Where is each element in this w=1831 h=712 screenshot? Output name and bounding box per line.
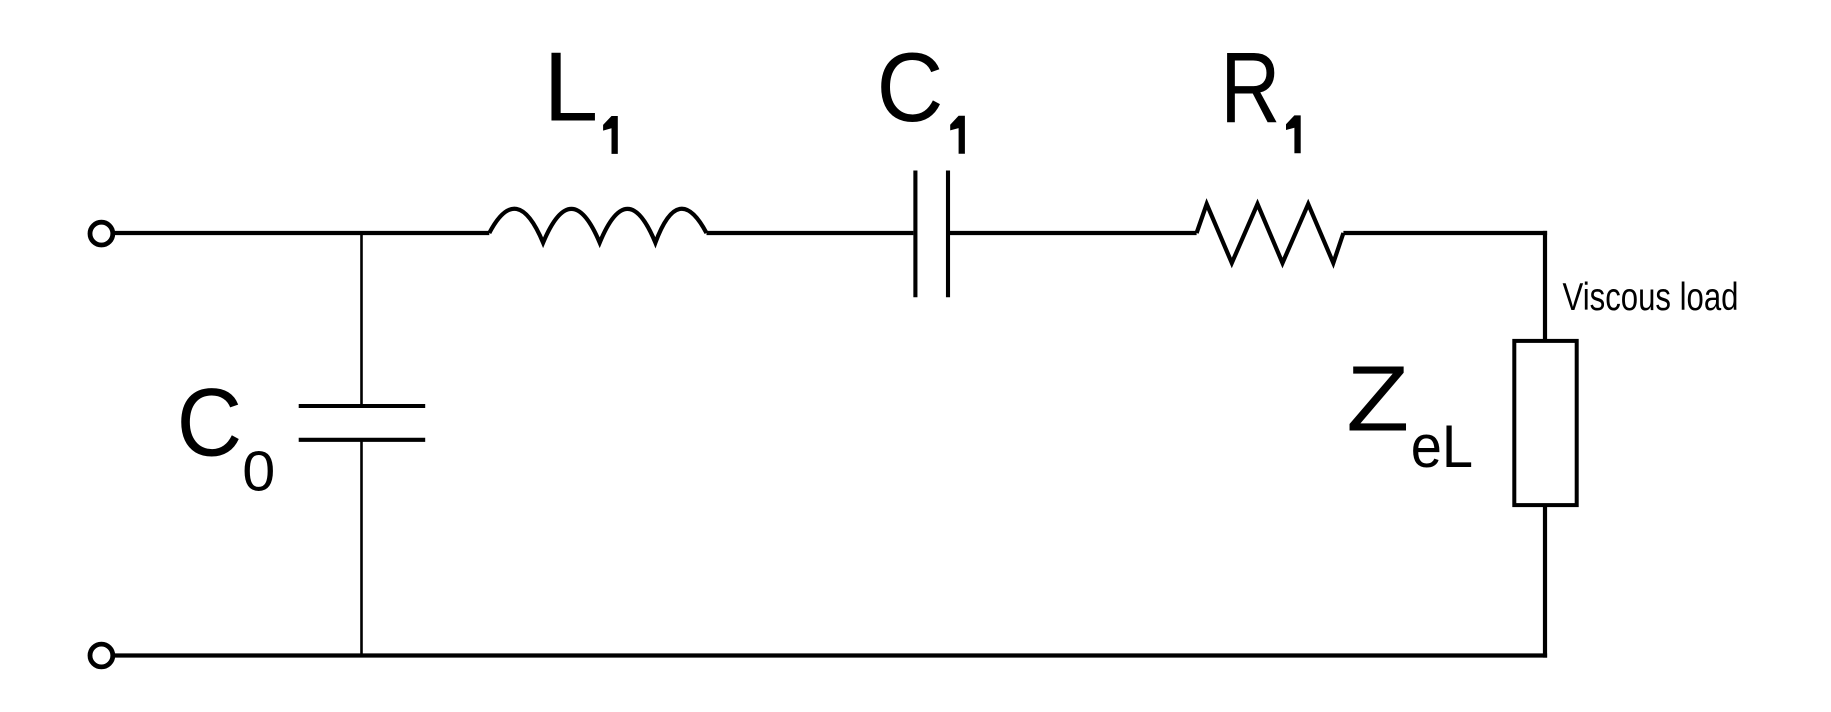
capacitor C0 (top plate) <box>299 404 426 408</box>
wire (top-right corner down to load box) <box>1543 231 1547 341</box>
svg-text:eL: eL <box>1411 412 1473 480</box>
load impedance ZeL (box) <box>1514 341 1576 505</box>
wire (resistor to top-right corner) <box>1343 231 1547 235</box>
svg-text:Viscous load: Viscous load <box>1563 276 1739 319</box>
wire (bottom rail) <box>115 653 1548 657</box>
terminal (top-left input port) <box>90 222 113 245</box>
svg-text:C: C <box>877 32 944 142</box>
inductor L1 <box>489 209 706 243</box>
capacitor C1 (right plate) <box>946 171 950 298</box>
label C1 subscript 1 <box>950 116 965 154</box>
svg-text:L: L <box>543 32 598 142</box>
wire (C1 to resistor) <box>950 231 1197 235</box>
svg-text:0: 0 <box>242 440 275 504</box>
svg-text:C: C <box>177 370 243 477</box>
wire (inductor to C1) <box>707 231 914 235</box>
wire (C0 branch lower segment) <box>360 440 363 656</box>
wire (load box to bottom rail) <box>1543 505 1547 657</box>
wire (C0 branch upper segment) <box>360 233 363 406</box>
wire (top rail: terminal to inductor) <box>115 231 490 235</box>
resistor R1 <box>1197 204 1344 263</box>
label R1 subscript 1 <box>1286 115 1301 153</box>
svg-text:Z: Z <box>1346 347 1409 451</box>
label L1 subscript 1 <box>603 116 618 154</box>
svg-text:R: R <box>1220 32 1280 144</box>
capacitor C1 (left plate) <box>913 171 917 298</box>
capacitor C0 (bottom plate) <box>299 438 426 442</box>
terminal (bottom-left input port) <box>90 644 113 667</box>
